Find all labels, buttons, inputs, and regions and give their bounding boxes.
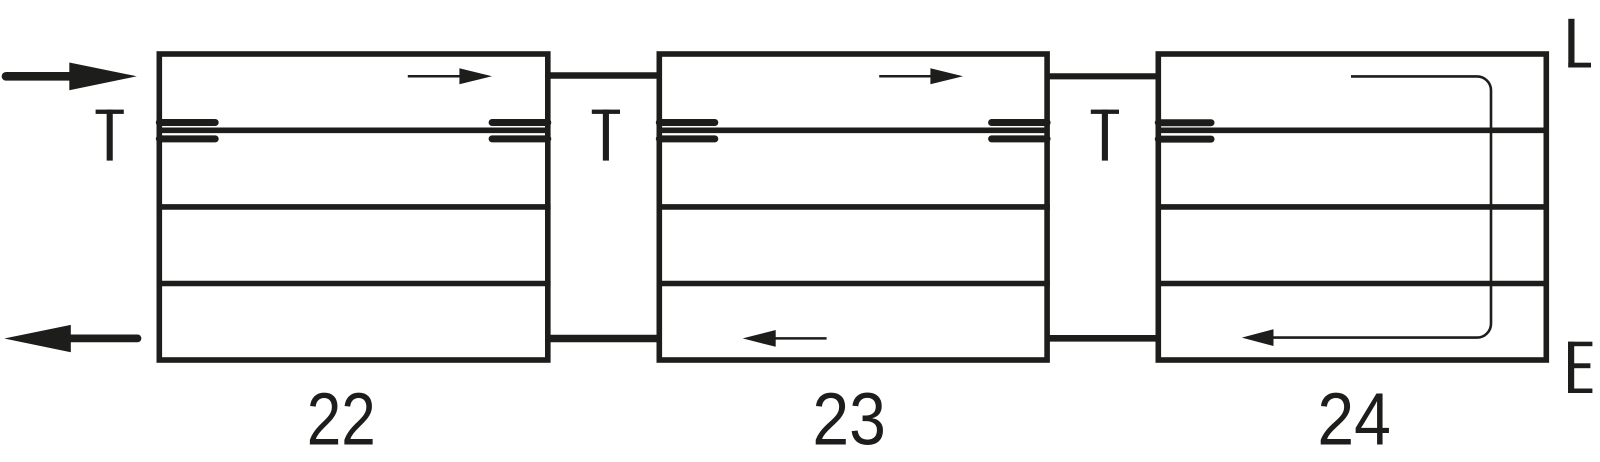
membrane end bars block 22 left <box>159 123 215 139</box>
divider line block 23 lower <box>657 281 1050 287</box>
label E <box>1568 342 1592 393</box>
divider line block 24 lower <box>1156 281 1550 287</box>
label T3 <box>1091 110 1119 161</box>
flow arrow inside block 23 top <box>879 68 963 84</box>
flow arrow inside block 23 bottom <box>743 330 827 347</box>
label T1 <box>96 110 124 161</box>
inlet arrow <box>6 63 137 91</box>
flow arrow inside block 22 <box>408 68 492 84</box>
divider line block 22 lower <box>157 281 551 287</box>
svg-text:22: 22 <box>307 378 376 461</box>
divider line block 22 upper <box>157 204 551 210</box>
label L <box>1568 19 1591 68</box>
stage block 22 outline <box>157 54 551 360</box>
stage block 24 outline <box>1156 54 1550 360</box>
stage block 23 outline <box>657 54 1050 360</box>
divider line block 24 upper <box>1156 204 1550 210</box>
divider line block 23 upper <box>657 204 1050 210</box>
connector top blocks 23-24 <box>1047 73 1158 79</box>
svg-text:24: 24 <box>1317 378 1391 461</box>
membrane end bars block 22 right <box>492 123 548 139</box>
svg-text:23: 23 <box>812 378 886 461</box>
membrane end bars block 24 left <box>1158 123 1211 139</box>
label T2 <box>592 110 620 161</box>
recirculation path block 24 <box>1274 76 1492 337</box>
outlet arrow <box>4 325 137 352</box>
connector top blocks 22-23 <box>548 72 660 78</box>
membrane line block 23 <box>659 127 1047 133</box>
connector bottom blocks 22-23 <box>548 335 660 342</box>
membrane line block 24 <box>1158 127 1546 133</box>
membrane line block 22 <box>159 127 548 133</box>
recirculation arrowhead block 24 <box>1242 329 1274 346</box>
connector bottom blocks 23-24 <box>1047 335 1158 342</box>
membrane end bars block 23 left <box>659 123 715 139</box>
membrane end bars block 23 right <box>992 123 1048 139</box>
